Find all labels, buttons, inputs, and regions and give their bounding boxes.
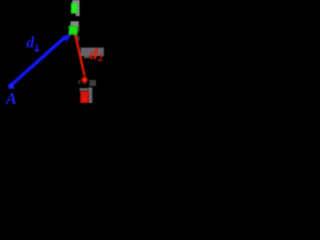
svg-text:A: A — [5, 89, 17, 108]
svg-text:1: 1 — [34, 42, 40, 54]
svg-text:2: 2 — [98, 53, 103, 64]
svg-text:B: B — [79, 90, 91, 107]
